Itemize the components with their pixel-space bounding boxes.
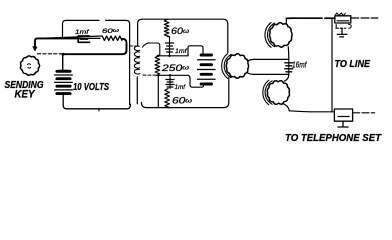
- svg-text:KEY: KEY: [15, 88, 36, 100]
- battery B1 10 volts: [59, 70, 67, 72]
- svg-text:60ω: 60ω: [171, 26, 189, 36]
- wire resistor to battery junction: [63, 39, 127, 54]
- sending key: [20, 56, 39, 75]
- resistor R2 60 ohm: [164, 19, 169, 36]
- svg-text:TO LINE: TO LINE: [335, 59, 371, 70]
- W2 bottom lead: [287, 47, 290, 60]
- svg-text:TO TELEPHONE SET: TO TELEPHONE SET: [285, 132, 382, 144]
- resistor R4 60 ohm: [165, 89, 170, 108]
- inductor coil L1: [134, 46, 139, 75]
- wire key contact with arrow: [35, 38, 78, 48]
- battery B2 bottom lead: [188, 75, 204, 87]
- bottom set wire: [289, 111, 334, 112]
- svg-text:1mf: 1mf: [175, 84, 187, 91]
- wire battery bottom run: [63, 94, 130, 109]
- wire junction to battery: [62, 54, 64, 70]
- svg-text:1mf: 1mf: [175, 48, 188, 55]
- lower node wire: [143, 74, 156, 76]
- repeating coil winding W1: [226, 54, 248, 78]
- resistor R1 60 ohm: [39, 36, 122, 40]
- battery B2 top lead: [188, 46, 203, 56]
- svg-text:1mf: 1mf: [75, 29, 90, 36]
- capacitor C3 1mf: [169, 75, 171, 88]
- svg-text:60ω: 60ω: [102, 28, 120, 35]
- protector (fuse + arrester): [335, 16, 351, 23]
- protector ground: [337, 29, 347, 37]
- vertical wire to set: [331, 18, 333, 112]
- capacitor C1 1mf: [78, 36, 89, 42]
- svg-text:10 VOLTS: 10 VOLTS: [73, 81, 109, 93]
- set condenser box: [334, 109, 352, 121]
- condenser ground: [338, 121, 348, 127]
- capacitor C2 1mf: [169, 37, 171, 56]
- winding W2 upper: [270, 23, 293, 48]
- resistor R3 250 ohm: [155, 56, 160, 74]
- battery B2: [201, 54, 211, 57]
- junction nodes mid: [157, 55, 159, 57]
- middle box frame: [142, 19, 228, 52]
- wire W1 to node B: [248, 73, 289, 74]
- return wire to box bottom: [157, 75, 159, 107]
- capacitor C4 16mf: [288, 59, 290, 74]
- outer return loop wire: [63, 20, 100, 38]
- junction tick: [98, 109, 100, 111]
- svg-text:250ω: 250ω: [161, 63, 189, 73]
- W2 top lead: [285, 18, 287, 23]
- top line wire: [286, 17, 335, 19]
- svg-text:16mf: 16mf: [292, 60, 307, 69]
- svg-text:60ω: 60ω: [172, 96, 192, 106]
- winding W3 lower: [267, 81, 289, 105]
- mid node wire: [157, 55, 188, 57]
- W3 top lead: [284, 74, 289, 81]
- junction node: [62, 53, 65, 56]
- dashed key lever link: [38, 53, 63, 55]
- dash link at coil top: [131, 45, 137, 47]
- link coil top to mid wire: [142, 43, 160, 56]
- W3 bottom lead: [282, 103, 289, 111]
- wire W1 to node A: [248, 59, 289, 61]
